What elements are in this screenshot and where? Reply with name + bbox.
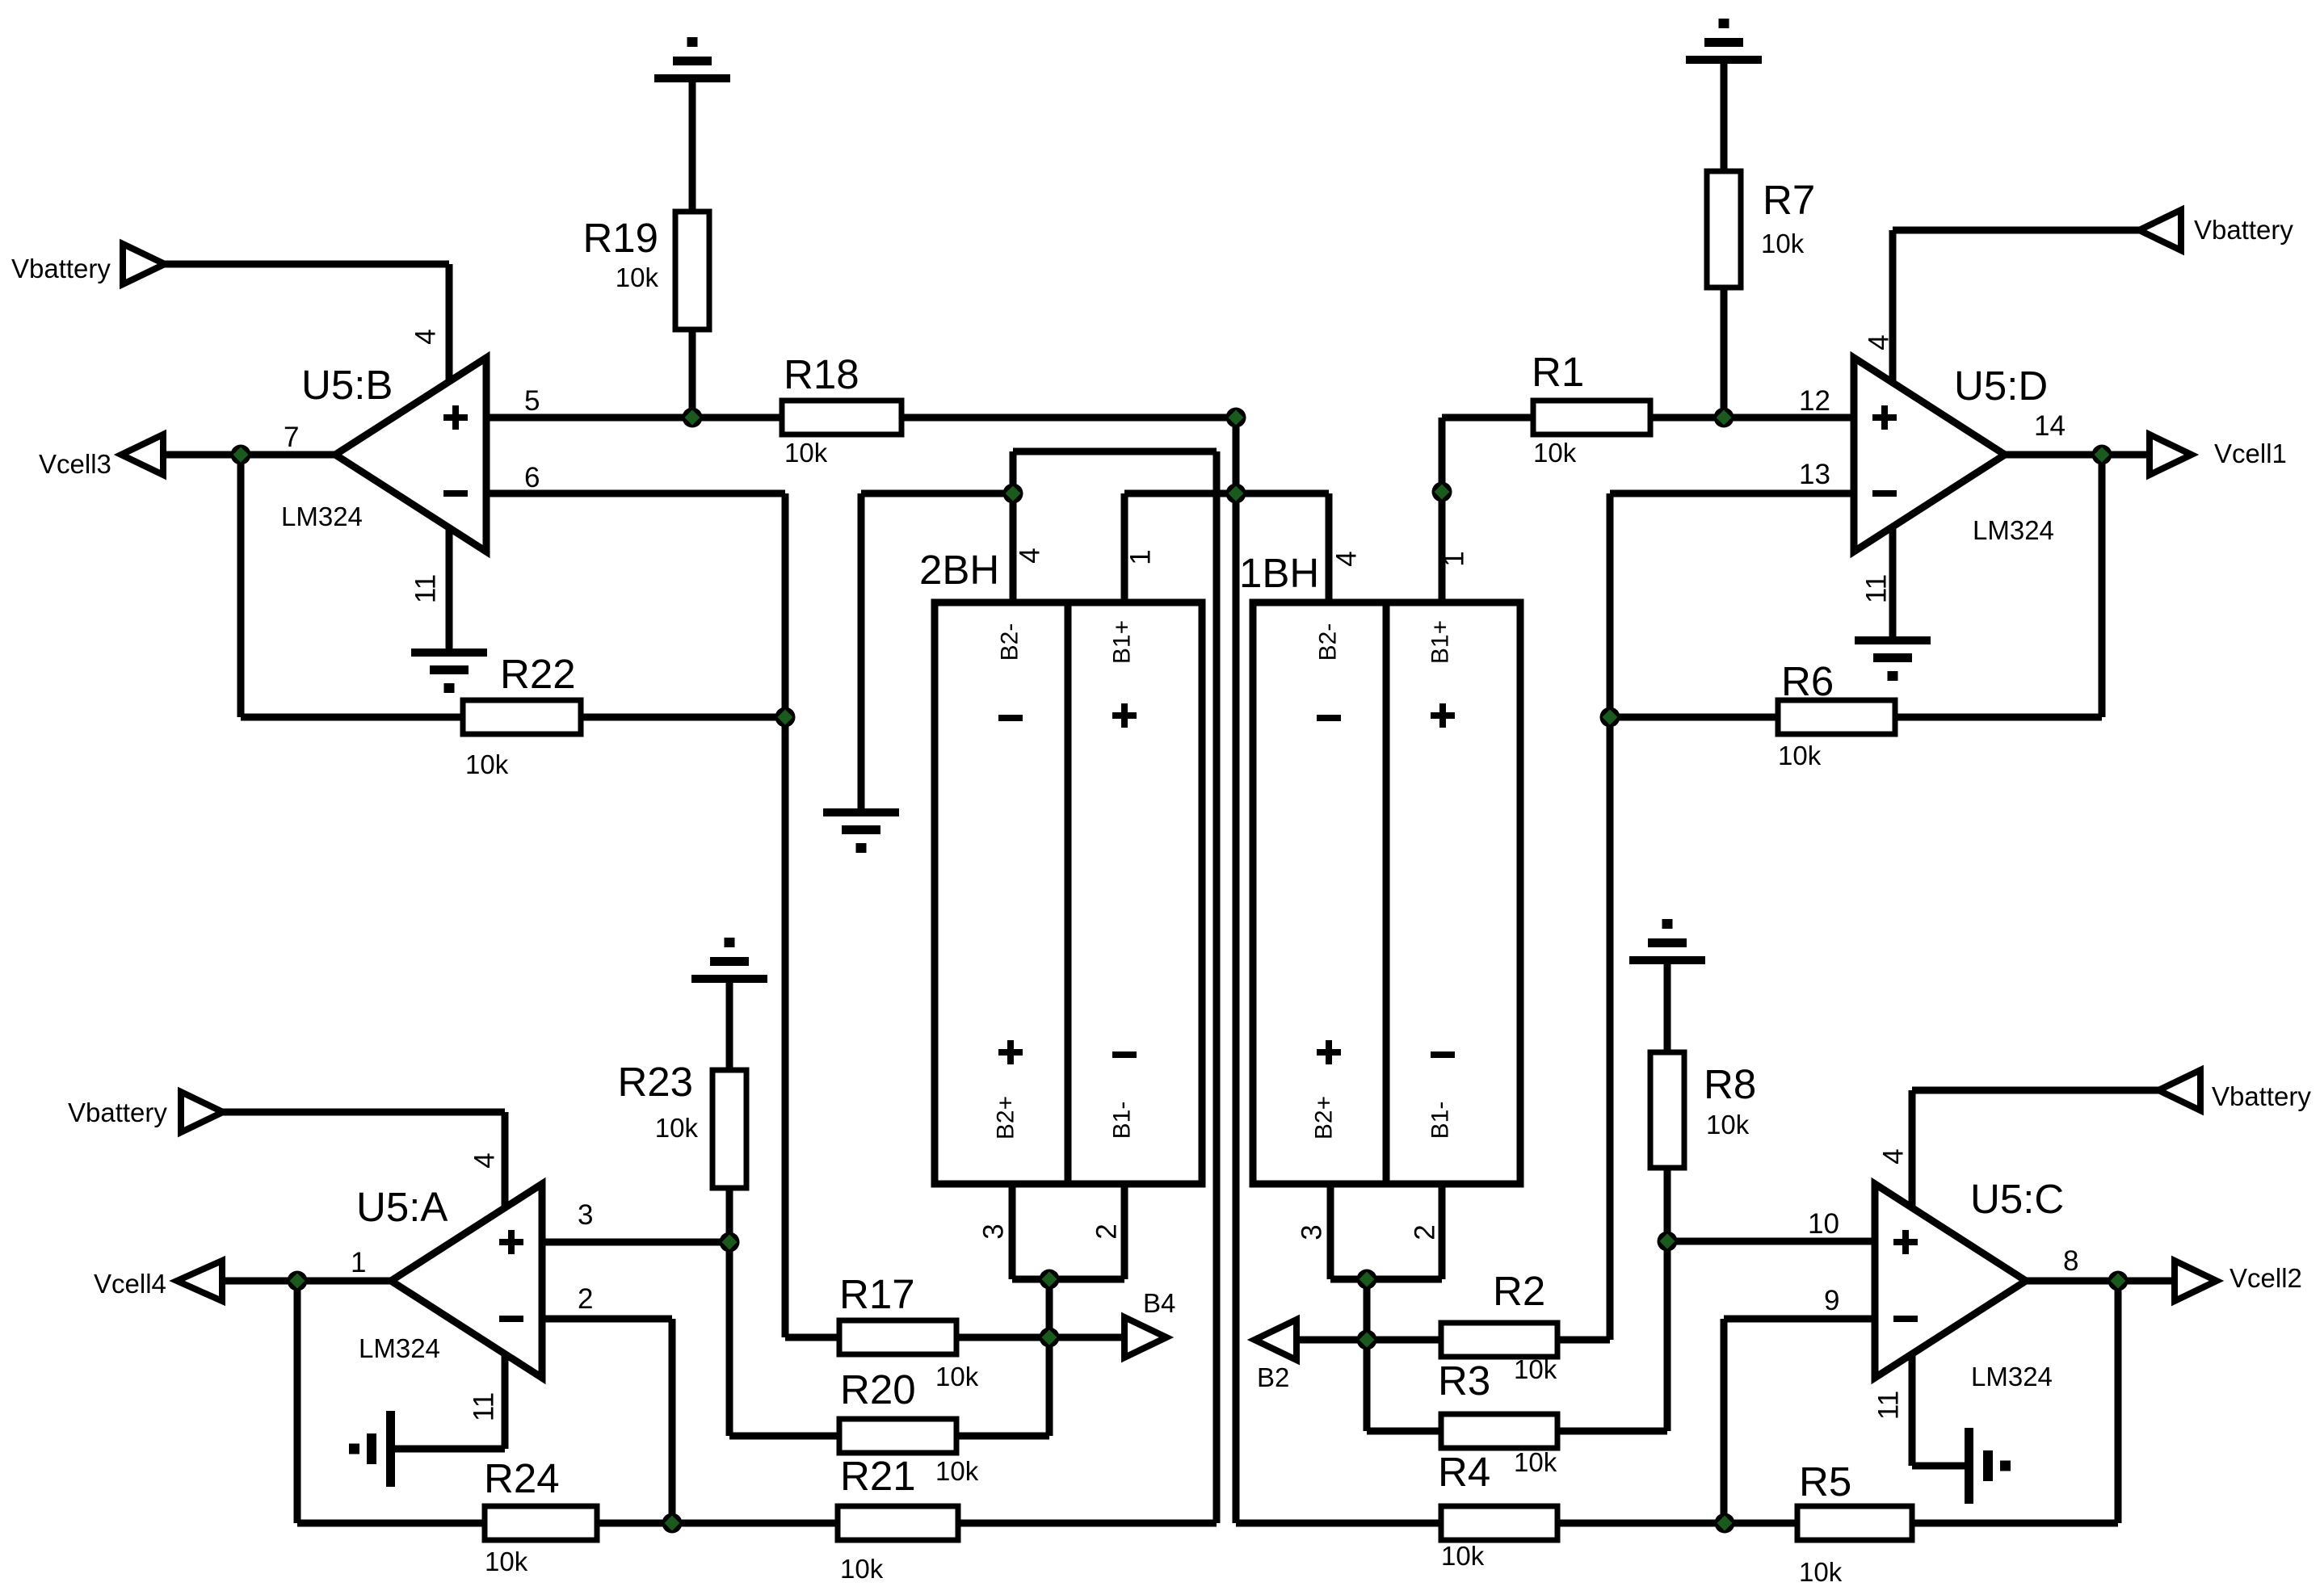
svg-text:B2-: B2- [997, 623, 1023, 661]
svg-text:3: 3 [978, 1224, 1010, 1239]
svg-text:Vbattery: Vbattery [2212, 1081, 2311, 1111]
svg-text:11: 11 [1861, 574, 1893, 603]
svg-text:4: 4 [1015, 548, 1046, 563]
svg-text:U5:C: U5:C [1970, 1176, 2064, 1222]
svg-text:12: 12 [1799, 385, 1830, 417]
svg-text:11: 11 [410, 574, 442, 603]
svg-text:R4: R4 [1438, 1449, 1490, 1495]
svg-text:13: 13 [1799, 459, 1830, 490]
svg-text:10k: 10k [655, 1113, 699, 1143]
svg-text:10k: 10k [1706, 1110, 1750, 1140]
svg-text:10k: 10k [935, 1456, 979, 1486]
svg-text:LM324: LM324 [1971, 1362, 2053, 1391]
svg-text:10k: 10k [465, 749, 509, 779]
svg-text:4: 4 [410, 329, 442, 344]
svg-text:3: 3 [578, 1199, 593, 1231]
svg-text:B1+: B1+ [1427, 620, 1454, 664]
svg-text:B2+: B2+ [1311, 1096, 1338, 1140]
svg-text:B1+: B1+ [1109, 620, 1136, 664]
svg-text:Vcell1: Vcell1 [2214, 439, 2287, 468]
svg-text:2BH: 2BH [919, 547, 999, 593]
svg-text:4: 4 [1878, 1148, 1910, 1164]
svg-text:R8: R8 [1704, 1061, 1756, 1107]
svg-text:4: 4 [1864, 334, 1895, 350]
svg-text:1: 1 [1125, 549, 1157, 565]
svg-text:R21: R21 [840, 1453, 916, 1499]
svg-text:8: 8 [2063, 1245, 2078, 1277]
svg-text:10k: 10k [1799, 1557, 1843, 1587]
svg-text:R24: R24 [484, 1455, 560, 1501]
svg-text:B2+: B2+ [993, 1096, 1019, 1140]
svg-text:R2: R2 [1493, 1268, 1545, 1314]
svg-text:10k: 10k [1514, 1354, 1557, 1384]
svg-text:R22: R22 [500, 651, 576, 697]
svg-text:1: 1 [1439, 551, 1470, 566]
svg-text:10k: 10k [485, 1547, 528, 1576]
svg-text:R3: R3 [1438, 1358, 1490, 1404]
svg-text:R17: R17 [839, 1271, 915, 1317]
svg-text:6: 6 [524, 462, 540, 493]
svg-text:1: 1 [351, 1247, 366, 1278]
svg-text:R5: R5 [1799, 1459, 1851, 1505]
svg-text:10k: 10k [616, 262, 659, 292]
svg-text:10k: 10k [1778, 741, 1822, 770]
svg-text:10k: 10k [1441, 1541, 1485, 1571]
svg-text:R23: R23 [617, 1059, 693, 1105]
svg-text:2: 2 [1091, 1224, 1123, 1239]
svg-text:LM324: LM324 [281, 502, 363, 531]
svg-text:14: 14 [2034, 410, 2066, 442]
svg-text:B1-: B1- [1427, 1102, 1454, 1140]
svg-text:10k: 10k [840, 1554, 884, 1584]
svg-text:Vbattery: Vbattery [2194, 215, 2293, 245]
svg-text:7: 7 [284, 422, 299, 453]
svg-text:5: 5 [524, 385, 540, 417]
svg-text:B2: B2 [1257, 1362, 1289, 1392]
svg-text:4: 4 [469, 1152, 501, 1168]
svg-text:9: 9 [1824, 1285, 1839, 1316]
svg-text:R18: R18 [784, 351, 859, 397]
svg-text:10k: 10k [1533, 438, 1577, 468]
svg-text:10k: 10k [784, 438, 828, 468]
svg-text:2: 2 [1410, 1224, 1441, 1240]
svg-text:Vcell2: Vcell2 [2229, 1263, 2302, 1293]
svg-text:R20: R20 [840, 1366, 916, 1412]
svg-text:1BH: 1BH [1239, 550, 1319, 596]
svg-text:U5:B: U5:B [301, 362, 393, 408]
svg-text:B4: B4 [1143, 1288, 1175, 1318]
svg-text:LM324: LM324 [359, 1333, 440, 1363]
svg-text:R7: R7 [1763, 177, 1815, 223]
svg-text:R1: R1 [1532, 349, 1584, 395]
svg-text:U5:D: U5:D [1954, 363, 2048, 409]
svg-text:B1-: B1- [1109, 1102, 1136, 1140]
svg-text:11: 11 [1873, 1391, 1905, 1420]
svg-text:R19: R19 [582, 215, 658, 261]
svg-text:11: 11 [469, 1392, 500, 1421]
svg-text:3: 3 [1296, 1224, 1328, 1240]
svg-text:10k: 10k [1761, 229, 1805, 258]
svg-text:R6: R6 [1781, 658, 1834, 704]
svg-text:2: 2 [578, 1283, 593, 1315]
svg-text:10k: 10k [935, 1362, 979, 1391]
svg-text:10k: 10k [1514, 1447, 1557, 1477]
svg-text:10: 10 [1808, 1208, 1839, 1240]
svg-text:Vbattery: Vbattery [68, 1098, 167, 1127]
svg-text:Vcell3: Vcell3 [39, 449, 111, 479]
svg-text:U5:A: U5:A [356, 1184, 448, 1230]
svg-text:Vcell4: Vcell4 [94, 1269, 166, 1299]
svg-text:Vbattery: Vbattery [11, 254, 111, 283]
svg-text:4: 4 [1331, 551, 1363, 566]
svg-text:LM324: LM324 [1973, 515, 2054, 545]
svg-text:B2-: B2- [1315, 623, 1342, 661]
